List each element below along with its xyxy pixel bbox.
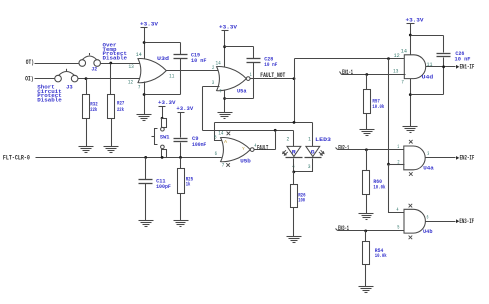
svg-text:Disable: Disable (37, 96, 62, 103)
ground below R60 (359, 214, 374, 220)
node junction C26 on EN1-IF (442, 65, 445, 68)
pin 12 of U3d (128, 80, 133, 86)
svg-text:EN1-IF: EN1-IF (460, 64, 475, 71)
wire R25 top lead (180, 158, 182, 169)
node junction SW1 top (161, 117, 164, 120)
ground below R25 (174, 221, 189, 227)
wire C28 top lead (253, 47, 255, 59)
ground below C11 (139, 221, 154, 227)
node FAULT_NOT (260, 72, 285, 79)
node junction U5a gnd (223, 97, 226, 100)
wire LED2 anode drop (312, 123, 314, 147)
wire OT to J2 (35, 63, 79, 65)
wire LED2 cathode (294, 159, 313, 172)
pin 4 of U5b (254, 143, 256, 149)
label Over Temp Protect Disable (103, 42, 128, 62)
svg-text:U5b: U5b (240, 158, 251, 165)
resistor R54 10.0k (363, 242, 387, 265)
resistor R27 22k (108, 95, 125, 119)
wire R26 bottom lead (293, 208, 295, 237)
capacitor C28 10 nF (247, 55, 278, 68)
node FLT-CLR-0 (3, 154, 30, 161)
label Short Circuit Protect Disable (37, 84, 62, 104)
node junction R27 on OT wire (109, 62, 112, 65)
wire +3.3V to C28 top (225, 46, 254, 48)
svg-text:EN3-IF: EN3-IF (459, 218, 474, 225)
wire U5a output FAULT_NOT (251, 78, 295, 80)
svg-text:10 nF: 10 nF (264, 61, 277, 68)
wire R27 top lead (110, 64, 112, 95)
pin 4 of U4b (397, 207, 399, 213)
svg-text:+3.3V: +3.3V (219, 23, 237, 30)
svg-text:14: 14 (136, 52, 142, 58)
svg-text:100: 100 (298, 197, 305, 204)
pin 2 of LED3 (287, 136, 290, 142)
pin 14 of U3d (136, 52, 142, 58)
pin 7 of U5a (219, 88, 221, 94)
power +3.3V for SW1 (158, 99, 176, 119)
node junction feedback (293, 121, 296, 124)
wire C11 top lead (145, 158, 147, 180)
ground below U3d (137, 115, 152, 121)
node junction FAULT_NOT vertical (293, 77, 296, 80)
switch SW1 (152, 119, 170, 158)
wire EN2-IF output (426, 157, 456, 159)
capacitor C26 10 nF (437, 50, 471, 62)
wire R60 bottom lead (366, 195, 368, 214)
wire U5a gnd to C28 bottom (225, 98, 254, 100)
pin 3 of U4a (427, 151, 429, 157)
resistor R26 100 (291, 185, 306, 208)
wire R54 bottom lead (365, 265, 367, 287)
svg-text:10.0k: 10.0k (372, 103, 384, 110)
gate U4a (AND) (404, 146, 434, 171)
svg-text:5: 5 (214, 135, 216, 141)
wire R26 top lead (293, 172, 295, 185)
svg-text:6: 6 (215, 151, 217, 157)
node junction U4a pin2 (387, 163, 390, 166)
wire C19 bottom lead (180, 59, 182, 95)
node junction C9/R25 (179, 156, 182, 159)
svg-text:7: 7 (138, 85, 141, 91)
svg-text:10.0k: 10.0k (373, 183, 385, 190)
svg-text:14: 14 (216, 61, 221, 67)
svg-text:2: 2 (212, 65, 214, 71)
svg-text:13: 13 (129, 64, 134, 70)
pin 6 of U5b (215, 151, 217, 157)
wire R60 top lead (366, 150, 368, 171)
pin 1 of U5a (250, 72, 252, 78)
node junction R60 (365, 148, 368, 151)
svg-text:EN2-1: EN2-1 (338, 144, 349, 151)
svg-text:10 nF: 10 nF (455, 56, 471, 63)
svg-text:11: 11 (169, 73, 174, 79)
wire C26 top lead (443, 36, 445, 53)
node junction FAULT_NOT branch (387, 57, 390, 60)
LED3 (dual LED) (283, 136, 332, 157)
wire FAULT vertical (275, 131, 277, 150)
svg-text:4: 4 (397, 207, 399, 213)
svg-text:+3.3V: +3.3V (158, 99, 176, 106)
svg-text:1: 1 (397, 144, 399, 150)
svg-text:Y: Y (242, 146, 245, 152)
capacitor C19 10 nF (174, 51, 207, 64)
ground below R27 (104, 147, 119, 153)
node EN1-IF (456, 64, 475, 71)
resistor R32 22k (83, 95, 99, 119)
svg-text:SW1: SW1 (160, 133, 170, 140)
svg-text:U5a: U5a (237, 88, 247, 95)
pin 6 of U4b (427, 214, 429, 220)
node junction U3d gnd (143, 93, 146, 96)
wire J2 to U3d pin13 (101, 63, 140, 65)
wire EN3-1 to U4b pin5 (338, 230, 405, 232)
node junction SW1 bottom (161, 156, 164, 159)
node EN2-1 (336, 144, 350, 151)
node junction R32 on OI wire (85, 77, 88, 80)
wire U5b output FAULT (254, 149, 276, 151)
ground below R26 (287, 237, 302, 243)
svg-text:OI): OI) (25, 75, 33, 82)
svg-text:14: 14 (218, 130, 223, 136)
svg-text:+3.3V: +3.3V (176, 105, 193, 112)
svg-text:100pF: 100pF (156, 183, 171, 190)
pin 12 of U4d (394, 53, 400, 59)
wire U5a pin7 to ground (224, 90, 226, 113)
wire FAULT_NOT vertical (294, 59, 296, 123)
svg-text:OT): OT) (26, 59, 34, 66)
jumper J2 (79, 53, 101, 72)
svg-text:J2: J2 (91, 65, 97, 72)
svg-text:7: 7 (401, 79, 404, 85)
wire C26 bottom lead (443, 58, 445, 95)
pin 1 of LED3 (308, 136, 311, 142)
pin 3 of U5a (212, 80, 214, 86)
svg-text:U4a: U4a (423, 164, 434, 171)
wire LED1 cathode (293, 159, 295, 172)
svg-text:G: G (311, 150, 315, 156)
wire C19 top lead (180, 43, 182, 55)
wire FAULT_NOT feedback horizontal (215, 122, 313, 124)
svg-text:13: 13 (393, 69, 398, 75)
svg-text:2: 2 (287, 136, 290, 142)
wire U4d gnd to C26 bottom (411, 94, 444, 96)
capacitor C9 100nF (174, 135, 207, 148)
pin name Y of U5b (242, 146, 245, 152)
resistor R60 10.0k (363, 171, 386, 195)
wire U5a pin3 vertical (202, 87, 204, 131)
svg-text:R: R (292, 150, 296, 156)
wire R32 top lead (86, 79, 88, 95)
ground below U5a (218, 113, 233, 119)
svg-text:FAULT_NOT: FAULT_NOT (260, 72, 285, 79)
pin 4 of LED3 (292, 164, 295, 170)
gate U4b (AND) (404, 209, 433, 235)
svg-text:3: 3 (212, 80, 214, 86)
svg-text:EN2-IF: EN2-IF (460, 155, 475, 162)
node EN1-1 (340, 69, 354, 76)
ground below R32 (79, 147, 94, 153)
pin 3 of LED3 (308, 164, 311, 170)
ground below U4d (403, 127, 418, 133)
wire EN1-IF output (426, 66, 456, 68)
wire C9 bottom lead (180, 143, 182, 158)
node junction U5a VCC (223, 45, 226, 48)
svg-text:12: 12 (394, 53, 400, 59)
node junction R54 (364, 230, 367, 233)
svg-text:FAULT: FAULT (257, 144, 269, 151)
no-connect X below U4b (409, 236, 413, 240)
svg-text:EN1-1: EN1-1 (342, 69, 353, 76)
gate U4d (AND) (404, 55, 433, 81)
svg-text:10 nF: 10 nF (191, 57, 207, 64)
wire +3.3V to C19 top (145, 42, 181, 44)
svg-text:3: 3 (427, 151, 429, 157)
pin name A of U5b (224, 139, 227, 145)
wire U4a pin2 stub (389, 164, 405, 166)
node junction U4d VCC (409, 34, 412, 37)
wire FLT-CLR-0 to U5b pin6 (36, 157, 222, 159)
svg-text:10.0k: 10.0k (375, 252, 387, 259)
pin 14 of U4d (401, 49, 407, 55)
svg-text:7: 7 (219, 88, 221, 94)
pin 2 of U4a (397, 159, 399, 165)
node junction FAULT up (274, 129, 277, 132)
node FAULT (257, 144, 269, 151)
wire U5a VCC pin14 (224, 47, 226, 69)
node junction U3d VCC (143, 41, 146, 44)
gate U5b (NOR) (221, 137, 254, 164)
svg-text:1: 1 (250, 72, 252, 78)
svg-text:5: 5 (397, 224, 399, 230)
svg-text:LED3: LED3 (315, 136, 331, 143)
wire U3d pin7 to ground (144, 82, 146, 115)
wire OI to J3 (35, 78, 55, 80)
capacitor C11 100pF (139, 178, 172, 190)
pin 5 of U5b (214, 135, 216, 141)
wire EN3-IF output (426, 221, 456, 223)
power +3.3V for C9 (176, 105, 193, 137)
node OI (25, 75, 33, 82)
wire C11 bottom lead (145, 184, 147, 221)
pin 7 of U3d (138, 85, 141, 91)
wire U4d VCC pin14 (410, 36, 412, 56)
gate U5a (NOR) (217, 66, 250, 94)
wire U4d pin7 to ground (410, 79, 412, 127)
no-connect X below U4a (409, 172, 413, 176)
node junction U4d gnd (409, 93, 412, 96)
wire R32 bottom lead (86, 119, 88, 147)
wire J3 to U3d pin12 (78, 78, 141, 80)
node EN3-IF (456, 218, 474, 225)
svg-text:3: 3 (308, 164, 311, 170)
wire +3.3V to C26 top (411, 35, 444, 37)
node EN2-IF (456, 155, 475, 162)
ground below R57 (360, 130, 375, 136)
power +3.3V for U3d (140, 21, 158, 43)
wire FAULT_NOT branch vertical (388, 59, 390, 165)
wire R57 top lead (366, 75, 368, 90)
svg-text:7: 7 (222, 163, 225, 169)
node junction R57 (365, 73, 368, 76)
wire LED1 anode drop (293, 131, 295, 147)
wire U3d VCC pin14 (144, 43, 146, 61)
power +3.3V for U4d (406, 17, 424, 36)
node junction LED cathodes (292, 171, 295, 174)
svg-text:+3.3V: +3.3V (140, 21, 158, 28)
svg-text:U4d: U4d (422, 74, 434, 81)
pin 11 of U3d (169, 73, 174, 79)
pin 11 of U4d (427, 62, 433, 68)
wire FAULT feedback to U5a pin3 (203, 130, 294, 132)
wire FAULT_NOT to U4d pin12 (295, 58, 406, 60)
svg-text:J3: J3 (66, 83, 73, 90)
resistor R57 10.0k (364, 90, 385, 114)
node EN3-1 (336, 225, 350, 232)
svg-text:22k: 22k (90, 106, 97, 113)
wire U5b pin5 feedback (215, 123, 224, 141)
node OT (26, 59, 34, 66)
wire U3d gnd to C19 bottom (145, 94, 181, 96)
pin 2 of U5a (212, 65, 214, 71)
svg-text:A: A (224, 139, 227, 145)
wire branch to U4b pin4 (389, 165, 405, 213)
svg-text:FLT-CLR-0: FLT-CLR-0 (3, 154, 30, 161)
pin 7 of U5b with no-connect X (222, 163, 230, 169)
pin 1 of U4a (397, 144, 399, 150)
pin 14 of U5a (216, 61, 221, 67)
svg-text:4: 4 (254, 143, 256, 149)
svg-text:Disable: Disable (103, 55, 128, 62)
wire R25 bottom lead (180, 194, 182, 221)
no-connect X above U4b (409, 204, 413, 208)
pin 13 of U4d (393, 69, 398, 75)
svg-text:U4b: U4b (423, 228, 433, 235)
pin 14 of U5b with no-connect X (218, 130, 230, 136)
svg-text:100nF: 100nF (192, 141, 207, 148)
ground below R54 (359, 287, 374, 293)
wire R27 bottom lead (111, 119, 113, 147)
no-connect X above U4a (409, 140, 413, 144)
svg-text:U3d: U3d (157, 55, 170, 62)
pin 5 of U4b (397, 224, 399, 230)
wire R57 bottom lead (366, 114, 368, 130)
svg-text:14: 14 (401, 49, 407, 55)
svg-text:+3.3V: +3.3V (406, 17, 424, 24)
power +3.3V for U5a (219, 23, 237, 46)
svg-text:22k: 22k (117, 106, 124, 113)
svg-text:1k: 1k (186, 181, 191, 188)
wire EN1-1 to U4d pin13 (342, 74, 406, 76)
pin 13 of U3d (129, 64, 134, 70)
node junction C11 (144, 156, 147, 159)
svg-text:12: 12 (128, 80, 133, 86)
resistor R25 1k (178, 169, 194, 194)
wire U5a pin3 stub (203, 86, 220, 88)
wire EN2-1 to U4a pin1 (338, 149, 405, 151)
svg-text:6: 6 (427, 214, 429, 220)
wire C28 bottom lead (253, 63, 255, 99)
svg-text:1: 1 (308, 136, 311, 142)
gate U3d (OR) (138, 55, 170, 83)
pin 7 of U4d (401, 79, 404, 85)
wire U3d output to U5a pin2 (167, 70, 220, 72)
wire R54 top lead (365, 231, 367, 242)
jumper J3 (55, 69, 78, 91)
